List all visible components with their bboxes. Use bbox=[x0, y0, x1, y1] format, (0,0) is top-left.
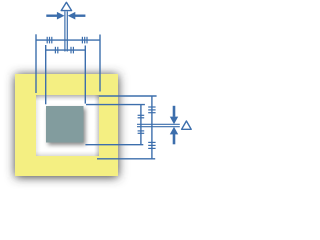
extension line gray-left x45 bbox=[45, 45, 47, 104]
inner right dimension line (gray height) bbox=[140, 105, 142, 145]
outer top dimension line (mat width) bbox=[36, 39, 100, 41]
white mat inner area bbox=[36, 95, 99, 156]
double hash right inner-top bbox=[138, 115, 145, 118]
extension line white-right x100 bbox=[99, 35, 101, 92]
extension line white-top y96 bbox=[99, 95, 157, 97]
extension line white-left x36 bbox=[35, 34, 37, 93]
double hash right inner-bottom bbox=[138, 131, 145, 133]
double hash top inner-left bbox=[55, 47, 57, 54]
top centre double mark bbox=[65, 11, 67, 51]
extension line gray-top y104.6 bbox=[86, 104, 145, 106]
yellow outer frame square bbox=[15, 74, 118, 176]
right triangle symbol bbox=[182, 121, 192, 129]
triple hash right-top bbox=[148, 107, 155, 113]
mat inset shadow bottom bbox=[36, 151, 99, 156]
right centre double mark bbox=[137, 124, 180, 126]
yellow frame drop shadow bbox=[15, 75, 118, 177]
triple hash top-left bbox=[47, 37, 52, 44]
inner top dimension line (gray width) bbox=[46, 49, 86, 51]
right down arrow bbox=[170, 106, 178, 124]
outer right dimension line (mat height) bbox=[151, 96, 153, 159]
mat inset shadow right bbox=[94, 95, 99, 156]
mat inset shadow top bbox=[36, 95, 99, 101]
gray square drop shadow bbox=[48, 109, 86, 146]
top triangle symbol bbox=[61, 2, 71, 10]
double hash top inner-right bbox=[71, 47, 73, 54]
extension line gray-bottom y144.7 bbox=[85, 144, 143, 146]
triple hash top-right bbox=[82, 37, 87, 44]
top left arrow bbox=[46, 12, 64, 20]
mat inset shadow left bbox=[36, 95, 41, 156]
top right arrow bbox=[68, 12, 86, 20]
gray center square bbox=[46, 106, 84, 143]
extension line gray-right x85 bbox=[84, 46, 86, 104]
extension line white-bottom y158.8 bbox=[97, 158, 155, 160]
right up arrow bbox=[170, 127, 178, 145]
triple hash right-bottom bbox=[148, 142, 155, 148]
